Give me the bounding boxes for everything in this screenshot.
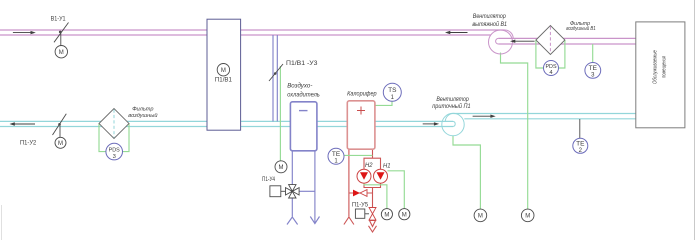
svg-text:Вентилятор: Вентилятор <box>473 13 506 20</box>
svg-text:Фильтр: Фильтр <box>132 107 154 113</box>
svg-text:ТЕ: ТЕ <box>576 141 585 148</box>
svg-text:М: М <box>402 212 407 218</box>
svg-text:Н2: Н2 <box>365 163 373 169</box>
svg-text:охладитель: охладитель <box>287 91 320 99</box>
svg-text:помещения: помещения <box>661 56 667 78</box>
svg-text:приточный П1: приточный П1 <box>432 102 471 110</box>
svg-text:Вентилятор: Вентилятор <box>436 96 469 103</box>
svg-text:М: М <box>384 212 389 218</box>
svg-text:PDS: PDS <box>109 148 120 154</box>
svg-text:В1-У1: В1-У1 <box>51 16 66 23</box>
svg-text:вытяжной В1: вытяжной В1 <box>472 20 507 28</box>
svg-text:П1/В1: П1/В1 <box>215 77 233 83</box>
svg-text:П1-У5: П1-У5 <box>352 201 369 208</box>
svg-text:М: М <box>59 50 64 56</box>
svg-text:М: М <box>525 214 530 220</box>
svg-text:Воздухо-: Воздухо- <box>287 81 312 89</box>
svg-text:воздушный В1: воздушный В1 <box>566 25 596 32</box>
svg-text:ТЕ: ТЕ <box>332 151 341 158</box>
svg-text:П1/В1 -У3: П1/В1 -У3 <box>286 60 318 67</box>
svg-text:М: М <box>478 214 483 220</box>
svg-text:Калорифер: Калорифер <box>347 91 377 98</box>
svg-text:П1-У2: П1-У2 <box>20 140 37 147</box>
svg-text:М: М <box>279 165 284 171</box>
svg-text:Обслуживаемые: Обслуживаемые <box>653 50 659 84</box>
svg-text:ТЕ: ТЕ <box>589 65 598 72</box>
svg-text:ТS: ТS <box>388 87 397 94</box>
svg-text:П1-У4: П1-У4 <box>262 176 275 183</box>
svg-text:Н1: Н1 <box>383 164 391 170</box>
svg-text:3: 3 <box>113 154 116 160</box>
svg-text:воздушный: воздушный <box>128 112 158 119</box>
svg-text:М: М <box>221 68 226 74</box>
svg-text:М: М <box>58 141 63 147</box>
